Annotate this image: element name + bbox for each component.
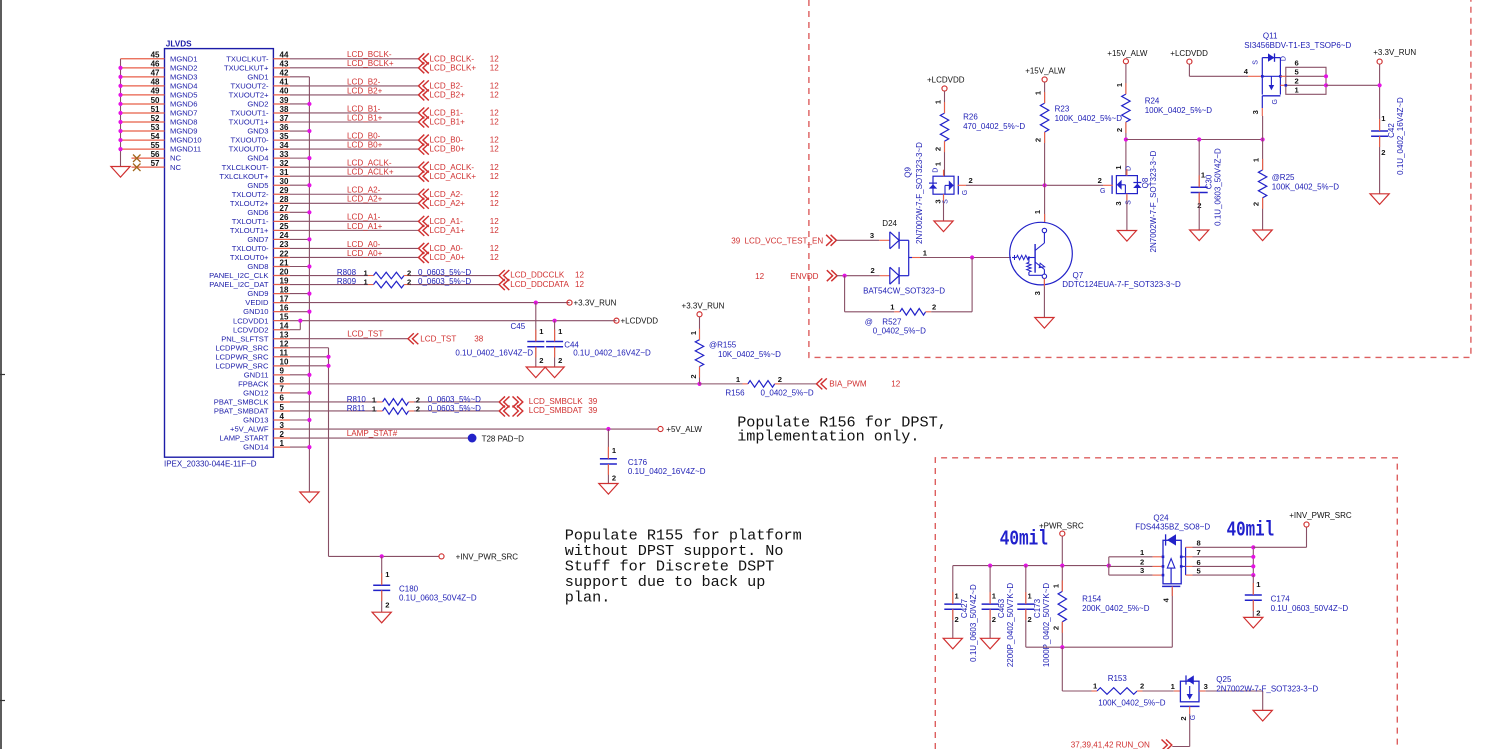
svg-text:4: 4 — [1244, 67, 1249, 76]
wire ENVDD — [837, 275, 880, 277]
svg-text:LCD_BCLK+: LCD_BCLK+ — [347, 59, 394, 68]
connector pin 1 stub — [273, 446, 290, 448]
junction D24/R527 — [970, 255, 974, 259]
svg-text:LCDPWR_SRC: LCDPWR_SRC — [215, 343, 269, 352]
svg-text:5: 5 — [1295, 68, 1300, 77]
dashed box DPST circuit — [809, 0, 1471, 357]
svg-text:0_0603_5%~D: 0_0603_5%~D — [418, 277, 471, 286]
svg-text:3: 3 — [1114, 201, 1123, 205]
wire net LCD_A1+ — [290, 229, 419, 231]
port chevron RUN_ON — [1162, 740, 1172, 749]
svg-text:LCD_B1+: LCD_B1+ — [347, 113, 383, 122]
junction lower bus — [1060, 645, 1064, 649]
svg-text:LCD_SMBCLK: LCD_SMBCLK — [529, 397, 584, 406]
port chevron LCD_A2- — [419, 189, 429, 200]
svg-text:TXUOUT2-: TXUOUT2- — [231, 81, 269, 90]
svg-text:2: 2 — [1140, 557, 1144, 566]
wire to +INV_PWR_SRC — [1253, 546, 1306, 548]
junction C463 tap — [988, 564, 992, 568]
svg-text:NC: NC — [170, 163, 181, 172]
wire LCDPWR pin10 — [290, 365, 329, 367]
svg-text:TXLOUT0-: TXLOUT0- — [232, 244, 269, 253]
diode D24 pin3 stub — [879, 239, 890, 241]
resistor R155 wire top — [699, 317, 701, 340]
svg-text:TXUCLKUT-: TXUCLKUT- — [226, 54, 269, 63]
connector pin 51 stub — [121, 112, 165, 114]
svg-text:+5V_ALW: +5V_ALW — [666, 425, 702, 434]
connector pin 5 stub — [273, 410, 290, 412]
port chevron LCD_BCLK+ — [419, 62, 429, 73]
svg-text:2: 2 — [871, 266, 875, 275]
connector pin 23 stub — [273, 247, 290, 249]
junction C173 tap — [1024, 564, 1028, 568]
svg-text:12: 12 — [575, 280, 585, 289]
svg-text:MGND3: MGND3 — [170, 72, 197, 81]
capacitor C176 — [600, 458, 617, 460]
svg-text:MGND9: MGND9 — [170, 127, 197, 136]
svg-text:Q24: Q24 — [1153, 513, 1169, 522]
connector pin 13 stub — [273, 338, 290, 340]
transistor Q11 pin tie box — [1286, 67, 1326, 94]
wire Q11 to R25 — [1262, 140, 1264, 170]
connector pin 11 stub — [273, 356, 290, 358]
svg-text:LCD_B0+: LCD_B0+ — [430, 145, 466, 154]
svg-text:GND11: GND11 — [244, 370, 269, 379]
junction GND pin 27 — [307, 210, 311, 214]
wire net LCD_B2- — [290, 85, 419, 87]
svg-text:plan.: plan. — [565, 589, 611, 607]
svg-text:1: 1 — [385, 570, 390, 579]
svg-text:GND7: GND7 — [247, 235, 268, 244]
svg-text:2: 2 — [969, 176, 973, 185]
svg-text:MGND7: MGND7 — [170, 109, 197, 118]
junction pin 49 — [118, 93, 122, 97]
capacitor C44 wire — [554, 321, 556, 342]
svg-text:VEDID: VEDID — [245, 298, 269, 307]
resistor R810 lead2 — [409, 401, 414, 403]
svg-text:GND9: GND9 — [247, 289, 268, 298]
svg-text:2N7002W-7-F_SOT323-3~D: 2N7002W-7-F_SOT323-3~D — [1216, 685, 1318, 694]
wire LCD_VCC_TEST_EN — [837, 239, 880, 241]
connector pin 8 stub — [273, 383, 290, 385]
port chevron LCD_BCLK- — [419, 53, 429, 64]
svg-text:R24: R24 — [1145, 97, 1160, 106]
connector pin 12 stub — [273, 347, 290, 349]
svg-text:1: 1 — [612, 446, 617, 455]
svg-text:3: 3 — [1140, 566, 1144, 575]
wire R527 right — [931, 311, 972, 313]
svg-text:52: 52 — [151, 114, 160, 123]
svg-text:LCD_B2+: LCD_B2+ — [347, 86, 383, 95]
junction Q24 out 547.3 — [1251, 545, 1255, 549]
svg-text:LCD_A0-: LCD_A0- — [347, 240, 381, 249]
svg-text:36: 36 — [280, 123, 289, 132]
svg-text:3: 3 — [1033, 291, 1042, 295]
resistor R23 — [1040, 103, 1048, 132]
svg-text:2: 2 — [934, 147, 943, 151]
svg-text:1: 1 — [890, 302, 895, 311]
svg-text:LCD_A2-: LCD_A2- — [430, 190, 464, 199]
svg-text:LCD_SMBDAT: LCD_SMBDAT — [529, 406, 583, 415]
resistor R808 lead1 — [368, 275, 374, 277]
connector pin 49 stub — [121, 94, 165, 96]
svg-text:1: 1 — [1171, 682, 1176, 691]
svg-text:0.1U_0402_16V4Z~D: 0.1U_0402_16V4Z~D — [1396, 97, 1405, 175]
junction R24/Q8 drain — [1124, 137, 1128, 141]
capacitor C30 wire — [1198, 140, 1200, 188]
svg-text:0.1U_0603_50V4Z~D: 0.1U_0603_50V4Z~D — [1271, 604, 1349, 613]
junction LCDPWR pin10 — [326, 364, 330, 368]
ground Q25 — [1253, 710, 1272, 721]
port chevron LCD_VCC_TEST_EN — [826, 235, 836, 246]
junction GND pin 18 — [307, 291, 311, 295]
capacitor C45 gnd wire — [535, 347, 537, 367]
svg-text:LCD_A0+: LCD_A0+ — [430, 253, 466, 262]
svg-text:12: 12 — [280, 340, 289, 349]
svg-text:BIA_PWM: BIA_PWM — [829, 379, 867, 388]
svg-text:2: 2 — [955, 615, 959, 624]
svg-text:+LCDVDD: +LCDVDD — [621, 317, 659, 326]
svg-text:TXUOUT0-: TXUOUT0- — [231, 136, 269, 145]
svg-text:1: 1 — [1033, 209, 1042, 214]
svg-text:10K_0402_5%~D: 10K_0402_5%~D — [718, 350, 781, 359]
ground C176 — [599, 484, 618, 495]
svg-text:39: 39 — [588, 397, 598, 406]
svg-text:2: 2 — [778, 375, 782, 384]
wire R153 to Q25 — [1143, 690, 1174, 692]
wire LCD_DDCDATA right — [410, 284, 499, 286]
svg-text:R153: R153 — [1108, 674, 1128, 683]
svg-text:1: 1 — [1140, 548, 1145, 557]
svg-text:11: 11 — [280, 349, 289, 358]
svg-text:1: 1 — [372, 396, 377, 405]
svg-text:1: 1 — [1115, 82, 1124, 87]
svg-text:2: 2 — [689, 374, 698, 378]
junction GND pin 4 — [307, 418, 311, 422]
junction GND pin 30 — [307, 183, 311, 187]
connector pin 29 stub — [273, 193, 290, 195]
svg-text:LCD_B2-: LCD_B2- — [430, 81, 464, 90]
svg-text:27: 27 — [280, 204, 289, 213]
svg-text:2: 2 — [416, 405, 420, 414]
svg-text:MGND5: MGND5 — [170, 91, 197, 100]
wire +PWR_SRC down — [1061, 536, 1063, 565]
svg-text:C45: C45 — [511, 322, 526, 331]
svg-text:12: 12 — [490, 217, 500, 226]
svg-text:12: 12 — [490, 91, 500, 100]
junction R154 tap — [1060, 564, 1064, 568]
svg-text:13: 13 — [280, 331, 289, 340]
svg-text:C42: C42 — [1387, 123, 1396, 138]
svg-text:2: 2 — [416, 396, 420, 405]
wire GND bus — [290, 76, 309, 78]
svg-text:6: 6 — [280, 394, 285, 403]
capacitor C42 gnd wire — [1379, 136, 1381, 194]
wire net LCD_B1+ — [290, 121, 419, 123]
svg-text:1: 1 — [1381, 114, 1386, 123]
svg-text:0_0402_5%~D: 0_0402_5%~D — [873, 327, 926, 336]
wire gate wire to Q7 — [1044, 185, 1046, 222]
resistor R811 lead2 — [409, 410, 414, 412]
capacitor C174 — [1245, 594, 1262, 596]
svg-text:17: 17 — [280, 294, 289, 303]
svg-text:0.1U_0603_50V4Z~D: 0.1U_0603_50V4Z~D — [969, 584, 978, 662]
resistor R156 — [748, 381, 775, 388]
svg-text:MGND4: MGND4 — [170, 81, 197, 90]
ground Q9 — [934, 221, 953, 232]
connector pin 38 stub — [273, 112, 290, 114]
capacitor C463 wire — [989, 566, 991, 605]
port chevron LCD_B1- — [419, 107, 429, 118]
ground C463 — [981, 638, 1000, 649]
svg-text:Q11: Q11 — [1263, 31, 1278, 40]
svg-text:2: 2 — [932, 302, 936, 311]
svg-text:@R25: @R25 — [1272, 173, 1295, 182]
junction pin 55 — [118, 147, 122, 151]
connector pin 36 stub — [273, 130, 290, 132]
connector pin 4 stub — [273, 419, 290, 421]
svg-text:LCD_B0-: LCD_B0- — [430, 136, 464, 145]
wire Q8 source — [1126, 194, 1128, 231]
svg-text:+15V_ALW: +15V_ALW — [1107, 49, 1148, 58]
svg-text:2: 2 — [1140, 682, 1144, 691]
ground C42 — [1370, 194, 1389, 205]
wire net LCD_A0+ — [290, 256, 419, 258]
svg-text:2: 2 — [1381, 148, 1385, 157]
svg-text:TXUCLKUT+: TXUCLKUT+ — [224, 63, 269, 72]
junction C176 tap — [606, 427, 610, 431]
connector pin 47 stub — [121, 76, 165, 78]
svg-text:PNL_SLFTST: PNL_SLFTST — [221, 334, 269, 343]
svg-text:1: 1 — [1114, 165, 1123, 170]
transistor Q24 right bracket — [1185, 547, 1187, 575]
svg-text:3: 3 — [1251, 110, 1260, 114]
wire Q11 pin3 to R25 — [1262, 116, 1264, 140]
svg-text:33: 33 — [280, 150, 289, 159]
svg-text:1: 1 — [736, 375, 741, 384]
svg-text:LCD_VCC_TEST_EN: LCD_VCC_TEST_EN — [745, 236, 824, 245]
svg-text:24: 24 — [280, 231, 289, 240]
junction R155/R156 — [697, 382, 701, 386]
resistor R25 gnd wire — [1262, 198, 1264, 230]
junction GND pin 33 — [307, 156, 311, 160]
svg-text:D24: D24 — [882, 219, 897, 228]
svg-text:TXLOUT1-: TXLOUT1- — [232, 217, 269, 226]
svg-text:R26: R26 — [963, 113, 978, 122]
svg-text:MGND10: MGND10 — [170, 136, 202, 145]
capacitor C427 gnd wire — [952, 609, 954, 638]
svg-text:1: 1 — [372, 405, 377, 414]
testpoint T28 pad — [468, 434, 477, 443]
resistor R156 lead2 — [775, 383, 780, 385]
svg-text:1: 1 — [1051, 583, 1060, 588]
wire net LCD_BCLK+ — [290, 67, 419, 69]
svg-text:C30: C30 — [1205, 174, 1214, 189]
svg-text:12: 12 — [490, 63, 500, 72]
svg-text:12: 12 — [490, 199, 500, 208]
resistor R811 — [383, 408, 409, 415]
svg-text:LCD_DDCCLK: LCD_DDCCLK — [510, 271, 565, 280]
svg-text:C174: C174 — [1271, 595, 1291, 604]
diode D24 pin1 lead — [909, 257, 912, 259]
svg-text:C180: C180 — [399, 585, 419, 594]
svg-text:0.1U_0402_16V4Z~D: 0.1U_0402_16V4Z~D — [628, 467, 706, 476]
svg-text:LCD_ACLK+: LCD_ACLK+ — [430, 172, 477, 181]
svg-text:32: 32 — [280, 159, 289, 168]
svg-text:38: 38 — [280, 105, 289, 114]
svg-text:LCD_A2+: LCD_A2+ — [347, 195, 383, 204]
svg-text:2: 2 — [1051, 626, 1060, 630]
capacitor C44 gnd wire — [554, 347, 556, 367]
diode D24 pin2 stub — [880, 275, 890, 277]
svg-text:SI3456BDV-T1-E3_TSOP6~D: SI3456BDV-T1-E3_TSOP6~D — [1244, 41, 1351, 50]
svg-text:40: 40 — [280, 87, 289, 96]
svg-text:C176: C176 — [628, 458, 648, 467]
transistor Q11 pin4 stub — [1248, 75, 1262, 77]
ground MGND — [111, 167, 130, 178]
wire Q7 emitter — [1043, 279, 1045, 318]
wire net LCD_BCLK- — [290, 58, 419, 60]
transistor Q24 — [1163, 540, 1181, 584]
svg-text:GND8: GND8 — [247, 262, 268, 271]
wire Q9 source — [943, 194, 945, 221]
junction C44 tap — [553, 319, 557, 323]
capacitor C174 wire — [1252, 575, 1254, 595]
capacitor C427 wire — [952, 566, 954, 605]
wire Q25 source to gnd — [1206, 690, 1263, 692]
resistor R153 lead1 — [1092, 690, 1098, 692]
svg-text:+3.3V_RUN: +3.3V_RUN — [1373, 48, 1416, 57]
svg-text:3: 3 — [870, 231, 874, 240]
transistor Q9 gate stub — [958, 184, 966, 186]
resistor R156 lead1 — [743, 383, 748, 385]
svg-text:100K_0402_5%~D: 100K_0402_5%~D — [1055, 114, 1123, 123]
svg-text:JLVDS: JLVDS — [166, 40, 192, 49]
svg-text:LCD_B0+: LCD_B0+ — [347, 141, 383, 150]
capacitor C173 wire — [1025, 566, 1027, 605]
svg-text:12: 12 — [490, 172, 500, 181]
svg-text:0.1U_0402_16V4Z~D: 0.1U_0402_16V4Z~D — [573, 349, 651, 358]
connector pin 19 stub — [273, 284, 290, 286]
svg-text:2N7002W-7-F_SOT323-3~D: 2N7002W-7-F_SOT323-3~D — [915, 142, 924, 244]
connector pin 28 stub — [273, 202, 290, 204]
svg-text:DDTC124EUA-7-F_SOT323-3~D: DDTC124EUA-7-F_SOT323-3~D — [1062, 280, 1181, 289]
svg-text:8: 8 — [1197, 539, 1201, 548]
wire net LCD_A0- — [290, 247, 419, 249]
svg-text:37: 37 — [280, 114, 289, 123]
connector pin 15 stub — [273, 320, 290, 322]
junction LCDVDD2 — [298, 319, 302, 323]
transistor Q25 — [1180, 681, 1199, 702]
svg-text:28: 28 — [280, 195, 289, 204]
svg-text:18: 18 — [280, 285, 289, 294]
junction C45 tap — [534, 301, 538, 305]
junction gate/R23 — [1043, 183, 1047, 187]
svg-text:LCDPWR_SRC: LCDPWR_SRC — [215, 361, 269, 370]
connector pin 48 stub — [121, 85, 165, 87]
svg-text:LCD_TST: LCD_TST — [420, 334, 456, 343]
ground C427 — [943, 638, 962, 649]
svg-text:31: 31 — [280, 168, 289, 177]
wire LCD_TST — [290, 338, 408, 340]
svg-text:TXLOUT2-: TXLOUT2- — [232, 190, 269, 199]
transistor Q11 gate lead — [1261, 96, 1263, 108]
svg-text:LCDPWR_SRC: LCDPWR_SRC — [215, 352, 269, 361]
svg-text:R23: R23 — [1055, 105, 1070, 114]
svg-text:LCD_B1-: LCD_B1- — [347, 104, 381, 113]
svg-text:LCD_ACLK+: LCD_ACLK+ — [347, 168, 394, 177]
capacitor C176 wire — [607, 429, 609, 459]
svg-text:G: G — [1190, 715, 1197, 720]
wire GND pin 7 — [290, 392, 309, 394]
svg-text:2: 2 — [992, 615, 996, 624]
svg-text:LCD_A2+: LCD_A2+ — [430, 199, 466, 208]
svg-text:37,39,41,42 RUN_ON: 37,39,41,42 RUN_ON — [1071, 741, 1150, 749]
svg-text:12: 12 — [490, 109, 500, 118]
svg-text:LCD_ACLK-: LCD_ACLK- — [347, 159, 392, 168]
svg-text:2: 2 — [1115, 128, 1124, 132]
svg-text:12: 12 — [575, 271, 585, 280]
wire VEDID — [290, 302, 570, 304]
svg-text:54: 54 — [151, 132, 160, 141]
svg-text:LCD_BCLK-: LCD_BCLK- — [347, 50, 392, 59]
wire R154 bottom — [1061, 622, 1063, 647]
svg-text:53: 53 — [151, 123, 160, 132]
transistor Q9 — [933, 176, 954, 194]
svg-text:MGND2: MGND2 — [170, 63, 197, 72]
svg-text:12: 12 — [490, 136, 500, 145]
svg-text:12: 12 — [490, 118, 500, 127]
svg-text:GND6: GND6 — [247, 208, 268, 217]
svg-text:47: 47 — [151, 69, 160, 78]
svg-text:20: 20 — [280, 267, 289, 276]
port chevron ENVDD — [827, 270, 837, 281]
transistor Q25 pin1 stub — [1174, 690, 1181, 692]
wire LCD_SMBDAT right — [414, 410, 499, 412]
svg-text:GND4: GND4 — [247, 154, 268, 163]
connector pin 32 stub — [273, 166, 290, 168]
svg-text:39: 39 — [588, 406, 598, 415]
svg-text:+3.3V_RUN: +3.3V_RUN — [574, 299, 617, 308]
port chevron LCD_A1+ — [419, 225, 429, 236]
svg-text:2: 2 — [558, 356, 562, 365]
svg-text:+INV_PWR_SRC: +INV_PWR_SRC — [456, 552, 519, 561]
capacitor C174 gnd wire — [1252, 600, 1254, 617]
svg-text:2: 2 — [1179, 716, 1188, 720]
port chevron LCD_ACLK+ — [419, 171, 429, 182]
svg-text:48: 48 — [151, 78, 160, 87]
wire BIA_PWM — [780, 383, 817, 385]
svg-text:LCD_A2-: LCD_A2- — [347, 186, 381, 195]
capacitor C463 — [982, 603, 999, 605]
svg-text:LCD_B2+: LCD_B2+ — [430, 91, 466, 100]
connector pin 18 stub — [273, 293, 290, 295]
transistor Q24 left bracket — [1108, 557, 1110, 575]
resistor R809 lead1 — [368, 284, 374, 286]
wire R527 right vert — [971, 258, 973, 312]
ground Q8 — [1117, 231, 1136, 242]
wire LCD_SMBCLK right — [414, 401, 499, 403]
svg-text:R527: R527 — [882, 318, 902, 327]
svg-text:1: 1 — [689, 330, 698, 335]
svg-text:6: 6 — [1295, 59, 1299, 68]
svg-text:GND1: GND1 — [247, 72, 268, 81]
resistor R527 lead1 — [894, 311, 900, 313]
resistor R153 lead2 — [1137, 690, 1143, 692]
wire GND pin 30 — [290, 184, 309, 186]
svg-text:GND12: GND12 — [243, 389, 268, 398]
svg-text:51: 51 — [151, 105, 160, 114]
